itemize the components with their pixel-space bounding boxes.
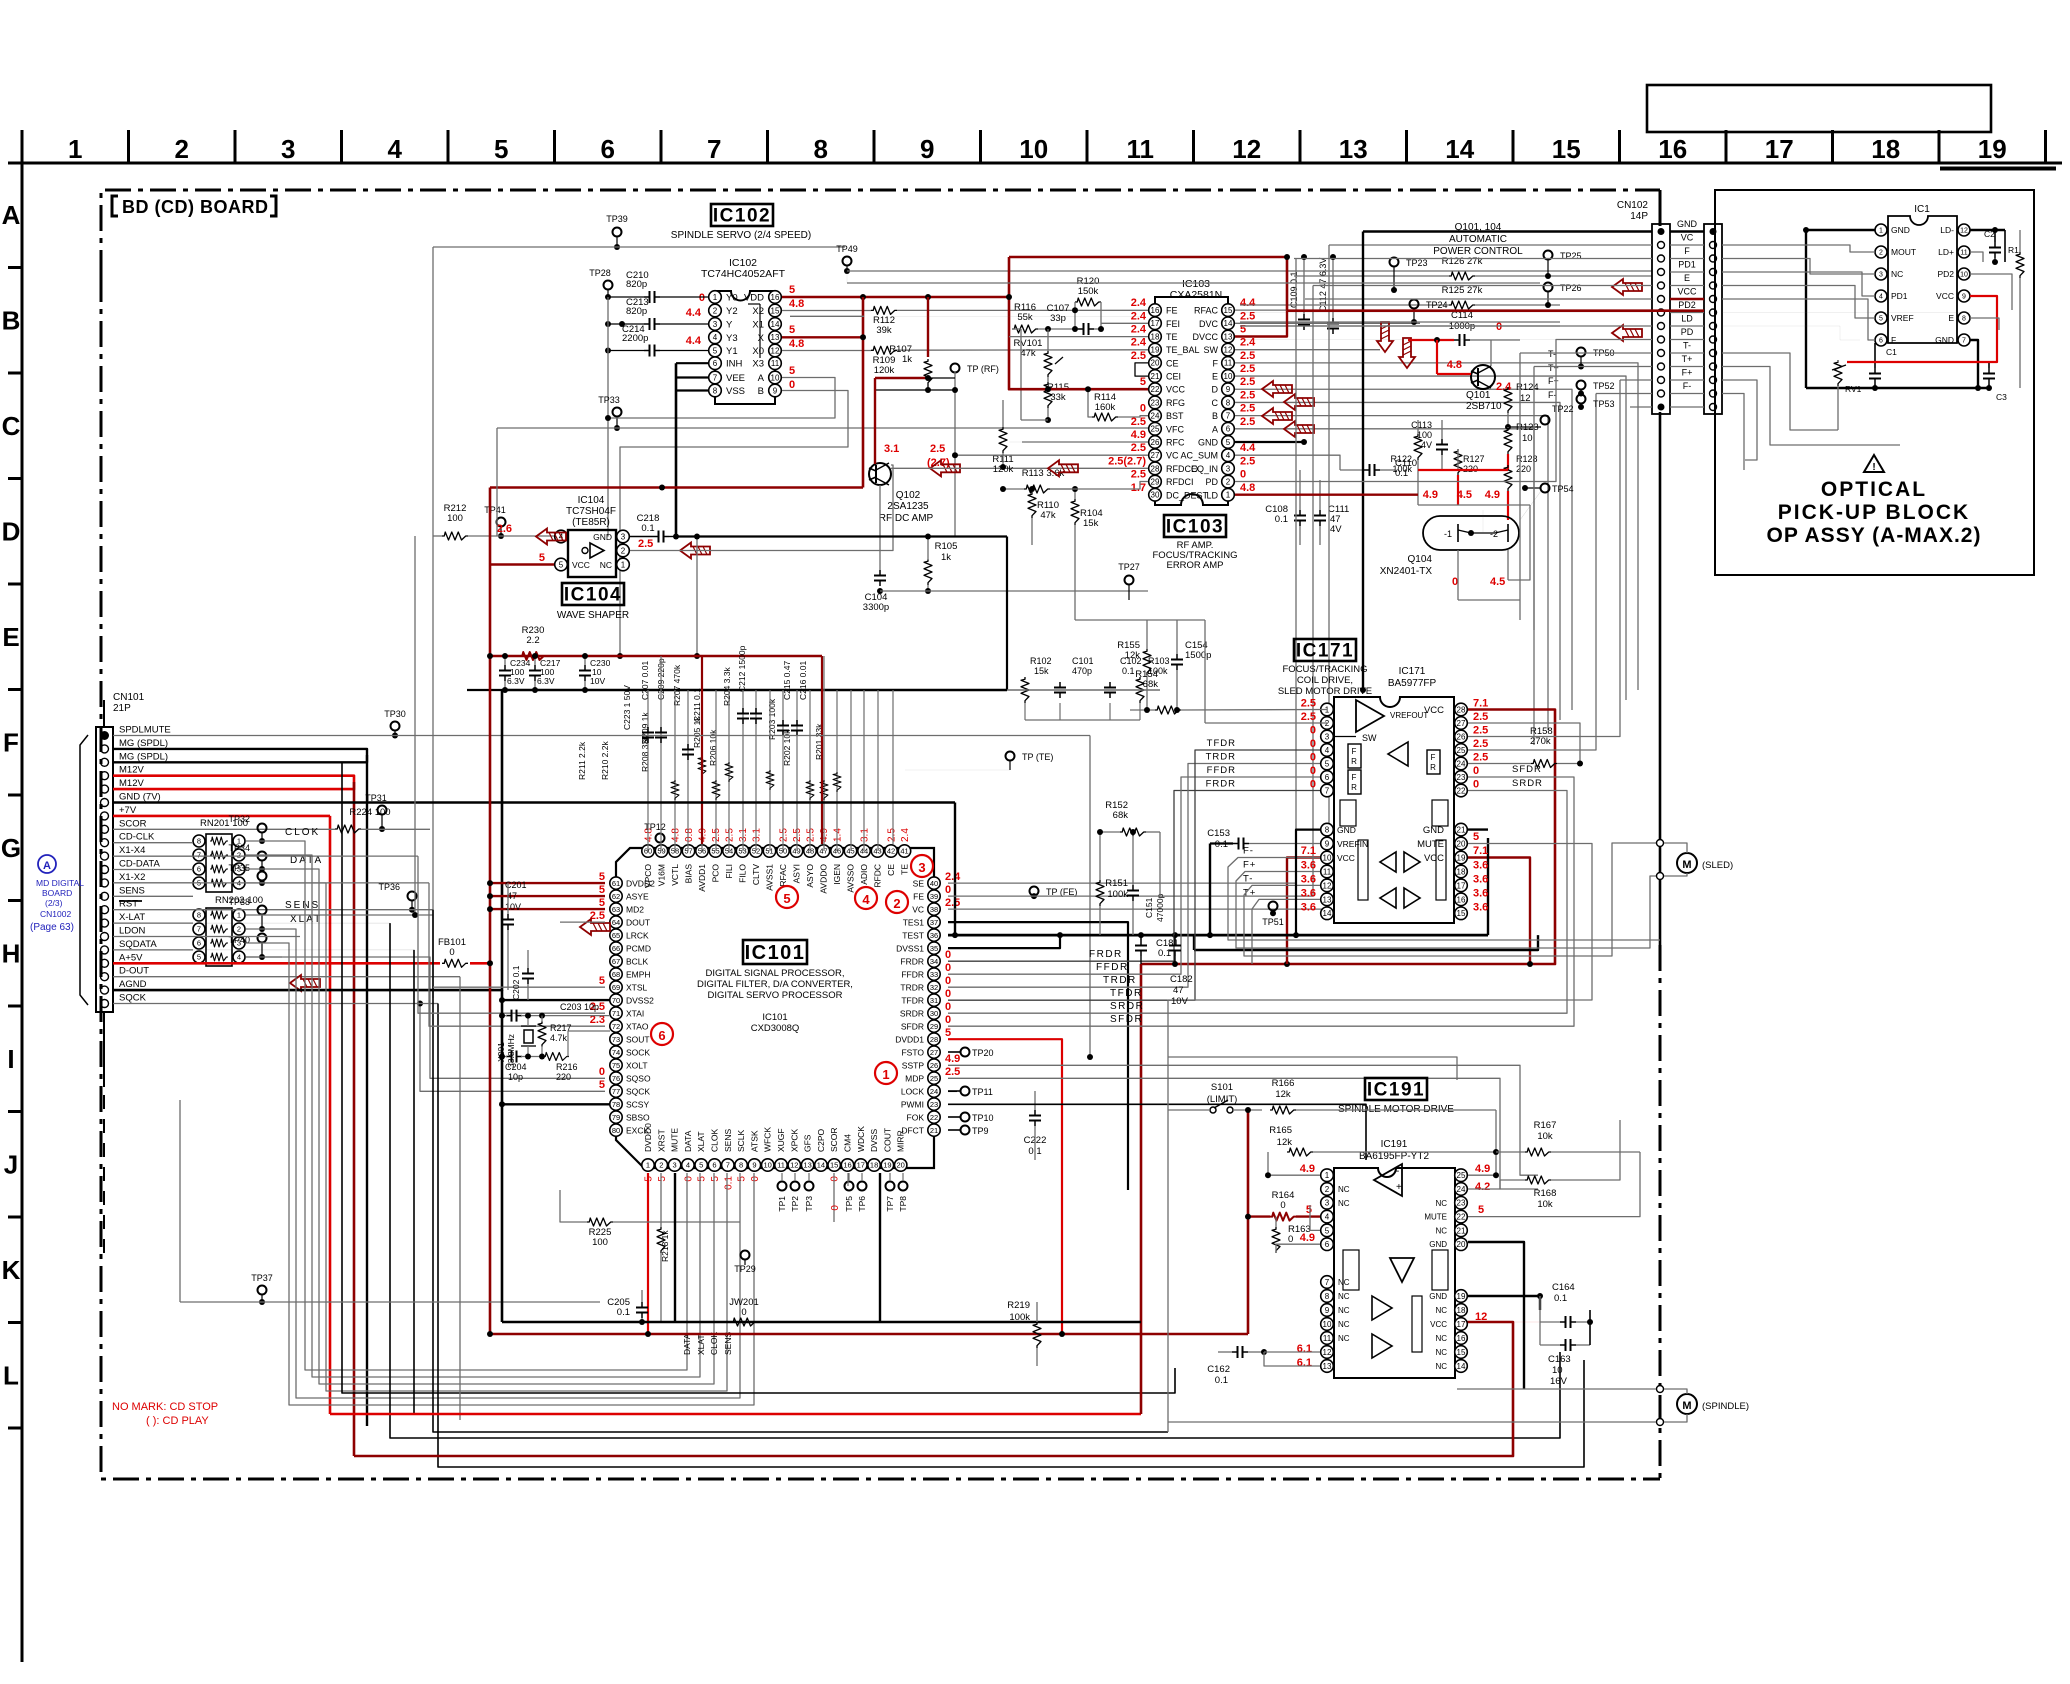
IC101 pin 2 XRST (655, 1159, 667, 1171)
svg-text:PD1: PD1 (1678, 260, 1696, 270)
svg-text:XLAT: XLAT (290, 914, 322, 925)
svg-text:0: 0 (1310, 752, 1316, 764)
IC102 pin 5 Y1 (709, 344, 722, 357)
svg-text:SOCK: SOCK (626, 1047, 650, 1057)
IC1 pin 1 GND (1875, 224, 1887, 236)
svg-text:C: C (2, 411, 21, 441)
wire red bottom to IC191 pin4 (1247, 1110, 1250, 1334)
svg-text:1: 1 (713, 293, 718, 302)
svg-text:270k: 270k (1530, 736, 1551, 747)
svg-text:12: 12 (1224, 346, 1233, 355)
svg-text:NC: NC (1435, 1348, 1447, 1357)
svg-text:24: 24 (1457, 759, 1466, 768)
svg-text:15: 15 (830, 1161, 838, 1170)
svg-text:LD-: LD- (1940, 225, 1954, 235)
IC191 pin 2 (1321, 1183, 1334, 1196)
svg-text:TP (TE): TP (TE) (1022, 752, 1053, 762)
wire R112 row (782, 310, 871, 312)
svg-text:40: 40 (930, 879, 938, 888)
IC103 pin 8 C (1222, 396, 1235, 409)
testpoint TP27 (1125, 576, 1134, 585)
IC101 pin 27 FSTO (928, 1046, 940, 1058)
svg-text:VCC: VCC (1424, 853, 1444, 864)
CN102 pin row 1 (1658, 228, 1665, 235)
svg-text:100: 100 (592, 1237, 608, 1248)
svg-text:BCLK: BCLK (626, 956, 649, 966)
IC101 pin 75 XOLT (610, 1059, 622, 1071)
wire gray verticals left of IC101 (414, 536, 416, 915)
wire red vertical x1062 DVDD (948, 1039, 1062, 1334)
svg-text:38: 38 (930, 905, 938, 914)
optical block outer box (1715, 190, 2034, 575)
wire red M12V second bottom run (354, 1322, 1513, 1456)
svg-text:10k: 10k (1537, 1131, 1553, 1142)
IC101 pin 52 CLTV (750, 845, 762, 857)
svg-text:9: 9 (1962, 294, 1966, 301)
svg-text:RF DC AMP: RF DC AMP (879, 513, 934, 524)
svg-text:47k: 47k (1020, 348, 1036, 359)
svg-text:TRDR: TRDR (1206, 752, 1236, 763)
svg-text:I: I (7, 1044, 14, 1074)
svg-text:LD+: LD+ (1938, 247, 1954, 257)
svg-text:62: 62 (612, 892, 620, 901)
svg-text:AVSSO: AVSSO (846, 864, 856, 893)
svg-text:IC1: IC1 (1914, 204, 1930, 215)
testpoint TP36 (408, 892, 417, 901)
svg-text:R216: R216 (556, 1062, 578, 1072)
svg-text:SENS: SENS (285, 900, 320, 911)
wire red VDD IC102 pin16 (782, 296, 1009, 299)
svg-text:IC101: IC101 (745, 942, 806, 964)
svg-text:5: 5 (1140, 376, 1146, 388)
svg-text:16: 16 (843, 1161, 851, 1170)
wire MUTE pin20 (1168, 844, 1592, 1058)
svg-text:9: 9 (920, 134, 934, 164)
wire IC103 GND pin5 (1235, 441, 1304, 443)
svg-text:6: 6 (1226, 425, 1231, 434)
svg-text:24: 24 (930, 1087, 938, 1096)
IC101 pin 73 SOUT (610, 1033, 622, 1045)
svg-text:0: 0 (1310, 738, 1316, 750)
svg-text:GND: GND (1198, 438, 1219, 448)
wire gray top area 1 (847, 282, 1540, 284)
wire TES1 row (948, 922, 1128, 1190)
svg-text:4: 4 (1226, 451, 1231, 460)
svg-text:D: D (1212, 385, 1219, 395)
svg-text:5: 5 (1226, 438, 1231, 447)
IC101 pin 59 V16M (655, 845, 667, 857)
svg-text:+: + (1396, 1182, 1402, 1193)
wire heavy vertical x676 (675, 363, 678, 536)
svg-text:C202 0.1: C202 0.1 (511, 965, 521, 1000)
IC191 internal amp (1374, 1164, 1402, 1196)
IC102 pin 6 INH (709, 357, 722, 370)
svg-text:CLOK: CLOK (285, 827, 320, 838)
svg-text:GND: GND (1429, 1240, 1447, 1249)
IC103 pin 11 F (1222, 357, 1235, 370)
IC191 pin 22 (1455, 1210, 1468, 1223)
svg-text:19: 19 (883, 1161, 891, 1170)
svg-text:SENS: SENS (723, 1129, 733, 1152)
IC171 pin 6 (1321, 771, 1334, 784)
svg-text:COUT: COUT (882, 1128, 892, 1152)
svg-text:TES1: TES1 (903, 917, 925, 927)
svg-text:5: 5 (657, 1176, 668, 1182)
IC103 pin 20 CE (1149, 357, 1162, 370)
IC101 pin 39 FE (928, 890, 940, 902)
CN101 pin 8 SCOR (101, 825, 109, 833)
IC191 pin 11 (1321, 1332, 1334, 1345)
transistor Q104 base wire (1482, 510, 1484, 533)
svg-text:MG (SPDL): MG (SPDL) (119, 751, 168, 762)
wire XTAI row (502, 1015, 507, 1017)
testpoint TP(FE) (1030, 887, 1039, 896)
wire LOCK FOK DFCT stubs (948, 1090, 957, 1092)
IC101 pin 29 SFDR (928, 1020, 940, 1032)
svg-text:11: 11 (1224, 359, 1233, 368)
svg-text:6: 6 (197, 939, 201, 948)
svg-text:Q101: Q101 (1466, 390, 1491, 401)
IC102 boxed label (711, 204, 773, 226)
svg-text:SSTP: SSTP (902, 1060, 925, 1070)
IC104 pin 5 (555, 558, 568, 571)
svg-text:5: 5 (710, 1176, 721, 1182)
svg-text:0.1: 0.1 (1275, 514, 1288, 525)
IC101 pin 12 XPCK (788, 1159, 800, 1171)
IC104 pin 4 (555, 530, 568, 543)
svg-text:( ): CD PLAY: ( ): CD PLAY (146, 1415, 209, 1427)
svg-text:T-: T- (1548, 349, 1556, 359)
svg-text:F+: F+ (1682, 368, 1693, 378)
svg-text:OP ASSY (A-MAX.2): OP ASSY (A-MAX.2) (1767, 524, 1982, 547)
wire red to DVCC (1009, 257, 1148, 389)
IC1 pin 3 NC (1875, 268, 1887, 280)
svg-text:47: 47 (1173, 985, 1184, 996)
motor M SLED (1677, 853, 1697, 873)
svg-text:78: 78 (612, 1100, 620, 1109)
svg-text:C151: C151 (1144, 897, 1154, 918)
svg-text:5: 5 (1325, 1226, 1330, 1235)
svg-text:13: 13 (1224, 332, 1233, 341)
svg-text:3: 3 (621, 532, 626, 541)
IC191 internal rects (1343, 1250, 1359, 1290)
svg-text:25: 25 (930, 1074, 938, 1083)
testpoint TP52 (1577, 381, 1586, 390)
svg-text:FFDR: FFDR (1207, 765, 1236, 776)
CN101 pin 2 MG (SPDL) (101, 745, 109, 753)
svg-text:Y3: Y3 (726, 333, 738, 344)
IC103 pin 23 RFG (1149, 396, 1162, 409)
IC103 pin 21 CEI (1149, 370, 1162, 383)
svg-text:100k: 100k (1107, 889, 1128, 900)
IC101 pin 38 VC (928, 903, 940, 915)
wires CN102 rows (1670, 230, 1704, 232)
svg-text:5: 5 (1306, 1204, 1312, 1216)
svg-text:3.6: 3.6 (1473, 887, 1488, 899)
wire TP24 row (1240, 321, 1560, 323)
svg-text:2.5: 2.5 (945, 1066, 960, 1078)
svg-text:WDCK: WDCK (856, 1126, 866, 1152)
wire heavy x676 to right (676, 535, 1007, 537)
wire PWMI row (948, 1104, 1366, 1160)
variable resistor RV1 (1834, 360, 1842, 386)
IC171 pin 28 (1455, 703, 1468, 716)
IC103 pin 12 SW (1222, 343, 1235, 356)
svg-text:77: 77 (612, 1087, 620, 1096)
IC102 pin 3 Y (709, 318, 722, 331)
svg-text:26: 26 (1151, 438, 1160, 447)
svg-text:3: 3 (918, 860, 925, 875)
svg-text:J: J (4, 1149, 18, 1179)
IC103 pin 10 E (1222, 370, 1235, 383)
svg-text:ERROR AMP: ERROR AMP (1166, 560, 1223, 571)
svg-text:0: 0 (789, 379, 795, 391)
wire bottom bus SQCK net (438, 1004, 1584, 1468)
IC191 pin 21 (1455, 1224, 1468, 1237)
svg-text:1: 1 (68, 134, 82, 164)
svg-text:33: 33 (930, 970, 938, 979)
svg-text:31: 31 (930, 996, 938, 1005)
IC101 pin 15 SCOR (828, 1159, 840, 1171)
svg-text:12: 12 (790, 1161, 798, 1170)
CN102 pin row 4 (1658, 269, 1665, 276)
svg-text:16: 16 (1457, 1334, 1466, 1343)
svg-text:2.4: 2.4 (1131, 323, 1147, 335)
svg-text:DIGITAL SERVO PROCESSOR: DIGITAL SERVO PROCESSOR (708, 990, 843, 1001)
svg-text:C223 1 50V: C223 1 50V (622, 685, 632, 730)
svg-text:BST: BST (1166, 411, 1184, 421)
CN102 pin row 5 (1658, 282, 1665, 289)
IC101 pin 48 ASYO (804, 845, 816, 857)
svg-text:Q102: Q102 (896, 490, 921, 501)
svg-text:10V: 10V (1171, 996, 1189, 1007)
testpoint TP26 (1544, 283, 1553, 292)
svg-text:A+5V: A+5V (119, 952, 143, 963)
svg-text:15: 15 (1457, 1348, 1466, 1357)
svg-text:2: 2 (893, 896, 900, 911)
IC101 pin 31 TFDR (928, 994, 940, 1006)
svg-text:XPCK: XPCK (789, 1129, 799, 1152)
svg-text:PD2: PD2 (1937, 269, 1954, 279)
svg-text:16V: 16V (1550, 1376, 1568, 1387)
IC102 body (715, 291, 775, 404)
svg-text:17: 17 (1457, 881, 1466, 890)
svg-text:TFDR: TFDR (1110, 988, 1143, 999)
IC191 pin 6 (1321, 1238, 1334, 1251)
IC171 pin 26 (1455, 730, 1468, 743)
svg-text:0: 0 (1280, 1200, 1285, 1211)
svg-text:TE: TE (1166, 332, 1178, 342)
svg-text:26: 26 (930, 1061, 938, 1070)
svg-text:68: 68 (612, 970, 620, 979)
svg-text:17: 17 (1765, 134, 1794, 164)
wire bottom bus RST net (433, 910, 1168, 1432)
svg-text:1: 1 (1325, 1171, 1330, 1180)
svg-text:2.5: 2.5 (638, 538, 653, 550)
wire R109 row (782, 350, 871, 352)
svg-text:DATA: DATA (683, 1130, 693, 1152)
IC171 pin 25 (1455, 744, 1468, 757)
wire optical gray nets (1722, 245, 1875, 252)
page border ruler left (21, 163, 24, 1662)
svg-text:K: K (2, 1255, 21, 1285)
svg-text:IC171: IC171 (1296, 641, 1354, 662)
svg-text:8: 8 (1226, 398, 1231, 407)
svg-text:65: 65 (612, 931, 620, 940)
wire TP37 row (180, 1301, 600, 1303)
svg-text:8: 8 (1325, 1292, 1330, 1301)
wire PD row (1240, 339, 1520, 341)
IC171 pin 14 (1321, 907, 1334, 920)
svg-text:0: 0 (945, 949, 951, 961)
svg-text:0.1: 0.1 (617, 1307, 630, 1318)
svg-text:2.5: 2.5 (1301, 698, 1316, 710)
IC101 pin 67 BCLK (610, 955, 622, 967)
IC171 pin 22 (1455, 784, 1468, 797)
svg-text:3.1: 3.1 (752, 828, 763, 842)
svg-text:15k: 15k (1034, 666, 1049, 676)
wire IC191 gray box (1168, 1057, 1457, 1080)
svg-text:FEI: FEI (1166, 319, 1180, 329)
svg-text:SCLK: SCLK (736, 1129, 746, 1152)
svg-text:7: 7 (707, 134, 721, 164)
testpoint TP28 (604, 281, 613, 290)
svg-text:0.8: 0.8 (684, 828, 695, 842)
svg-text:VSS: VSS (726, 386, 745, 397)
svg-text:6: 6 (712, 1161, 716, 1170)
svg-text:GND: GND (1891, 225, 1910, 235)
svg-text:A: A (758, 373, 765, 384)
svg-text:-2: -2 (1490, 529, 1498, 539)
svg-text:10p: 10p (508, 1072, 523, 1082)
IC171 body (1334, 697, 1454, 923)
testpoint TP54 (1541, 484, 1550, 493)
svg-text:NC: NC (1338, 1199, 1350, 1208)
svg-text:10: 10 (1960, 272, 1968, 279)
IC101 pin 22 FOK (928, 1111, 940, 1123)
svg-text:2.4: 2.4 (1240, 337, 1256, 349)
IC191 pin 5 (1321, 1224, 1334, 1237)
wire SPDLMUTE (113, 735, 1090, 737)
svg-text:MUTE: MUTE (670, 1128, 680, 1152)
IC103 pin 27 VC (1149, 449, 1162, 462)
svg-text:16: 16 (1151, 306, 1160, 315)
svg-text:21: 21 (1151, 372, 1160, 381)
svg-text:TP25: TP25 (1560, 251, 1582, 261)
svg-text:T+: T+ (1548, 363, 1559, 373)
red arrows into CN102 (1612, 279, 1642, 295)
wire rails verticals (467, 689, 502, 691)
svg-text:VREF: VREF (1891, 313, 1914, 323)
CN101 pin 15 X-LAT (101, 919, 109, 927)
wire SENS row to RN202 (113, 895, 193, 897)
svg-text:28: 28 (1151, 464, 1160, 473)
svg-text:22: 22 (930, 1113, 938, 1122)
svg-text:X: X (758, 333, 765, 344)
IC102 pin 2 Y2 (709, 304, 722, 317)
svg-text:L: L (3, 1360, 19, 1390)
IC101 pin 65 LRCK (610, 929, 622, 941)
svg-text:TP53: TP53 (1593, 399, 1615, 409)
svg-text:27: 27 (1457, 719, 1466, 728)
svg-text:BD (CD) BOARD: BD (CD) BOARD (122, 197, 268, 217)
svg-text:SCSY: SCSY (626, 1099, 649, 1109)
svg-text:30: 30 (1151, 491, 1160, 500)
svg-text:R166: R166 (1272, 1078, 1295, 1089)
svg-text:X1-X4: X1-X4 (119, 845, 145, 856)
svg-text:GFS: GFS (803, 1134, 813, 1152)
power rail dark red R230 (490, 655, 822, 658)
svg-text:3: 3 (673, 1161, 677, 1170)
testpoints TP1-TP8 bottom (778, 1182, 787, 1191)
svg-text:100: 100 (1417, 430, 1432, 440)
svg-text:6.3V: 6.3V (537, 676, 555, 686)
IC1 pin 7 GND (1958, 334, 1970, 346)
svg-text:8: 8 (197, 911, 201, 920)
svg-text:9: 9 (1226, 385, 1231, 394)
svg-text:4.5: 4.5 (1457, 489, 1472, 501)
svg-text:2SB710: 2SB710 (1466, 401, 1502, 412)
IC101 pin 49 ASYI (790, 845, 802, 857)
svg-text:1: 1 (882, 1067, 889, 1082)
IC191 pin 17 (1455, 1318, 1468, 1331)
wire bottom bus SQDATA net (414, 950, 1141, 1414)
svg-text:ASYO: ASYO (805, 864, 815, 888)
svg-text:3.6: 3.6 (1473, 901, 1488, 913)
CN102 pin row 2 (1658, 242, 1665, 249)
svg-text:4.9: 4.9 (1423, 489, 1438, 501)
wire LD pin1 red (1235, 494, 1418, 496)
svg-text:3: 3 (713, 320, 718, 329)
svg-text:8: 8 (1325, 825, 1330, 834)
svg-text:Y: Y (726, 320, 733, 331)
svg-text:R127: R127 (1463, 454, 1485, 464)
wire red VCC optical (1847, 296, 1997, 362)
svg-text:PD: PD (1205, 477, 1218, 487)
svg-text:SBSO: SBSO (626, 1112, 650, 1122)
ruler end bar (1940, 167, 2056, 171)
svg-text:A: A (43, 860, 51, 872)
CN101 pin 7 +7V (101, 812, 109, 820)
IC103 pin 29 RFDCI (1149, 475, 1162, 488)
svg-text:SCOR: SCOR (119, 818, 147, 829)
svg-text:14: 14 (1445, 134, 1474, 164)
svg-text:C203 10p: C203 10p (560, 1002, 599, 1012)
svg-text:16: 16 (771, 293, 780, 302)
svg-text:TP37: TP37 (251, 1273, 273, 1283)
svg-text:22: 22 (1151, 385, 1160, 394)
svg-text:5: 5 (699, 1161, 703, 1170)
svg-text:8: 8 (197, 837, 201, 846)
svg-text:5: 5 (559, 560, 564, 569)
svg-text:AC_SUM: AC_SUM (1180, 451, 1218, 461)
CN102 pin row 14 (1658, 404, 1665, 411)
wire MG SPDL loop (113, 749, 367, 762)
svg-text:0: 0 (945, 1001, 951, 1013)
wire IC102 pin9 B loop (620, 391, 848, 657)
svg-text:18: 18 (1457, 867, 1466, 876)
svg-text:18: 18 (1457, 1306, 1466, 1315)
IC101 pin 16 CM4 (841, 1159, 853, 1171)
svg-text:14: 14 (1224, 319, 1233, 328)
transistor Q101 2SB710 (1471, 365, 1495, 389)
wire LD row (1240, 325, 1560, 327)
IC191 pin 16 (1455, 1332, 1468, 1345)
svg-text:RV1: RV1 (1845, 384, 1862, 394)
svg-text:TP26: TP26 (1560, 283, 1582, 293)
svg-text:R203 100k: R203 100k (767, 698, 777, 740)
svg-text:5: 5 (789, 365, 795, 377)
